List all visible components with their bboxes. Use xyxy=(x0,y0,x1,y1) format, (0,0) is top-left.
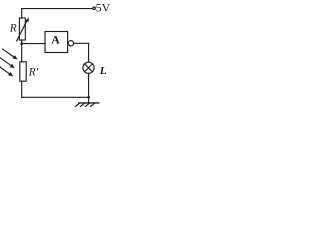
light arrow 2 xyxy=(0,58,11,66)
ground xyxy=(79,102,99,104)
node junction bottom xyxy=(87,96,90,99)
light arrow 3 xyxy=(0,67,9,74)
wire bottom rail xyxy=(22,96,89,98)
op-amp U1 box A xyxy=(45,32,68,53)
wire left vertical lower xyxy=(21,81,23,97)
svg-text:R: R xyxy=(9,22,17,34)
resistor R arrow xyxy=(17,20,28,41)
wire A output horizontal xyxy=(74,42,89,44)
svg-text:L: L xyxy=(99,65,107,77)
photoresistor R' xyxy=(20,62,26,81)
light arrow 1 xyxy=(3,49,14,57)
wire left vertical upper xyxy=(21,9,23,18)
wire lamp drop vertical xyxy=(88,43,90,62)
wire A input xyxy=(22,43,45,45)
lamp L xyxy=(83,62,94,73)
wire left vertical middle xyxy=(21,40,23,62)
node junction at A input xyxy=(20,42,23,45)
resistor R xyxy=(19,18,25,40)
svg-text:A: A xyxy=(51,32,60,46)
svg-text:5V: 5V xyxy=(96,1,111,15)
wire below lamp xyxy=(88,73,90,102)
svg-text:R′: R′ xyxy=(28,67,39,79)
terminal 5V xyxy=(93,7,96,10)
op-amp output bubble xyxy=(68,41,73,46)
wire top rail xyxy=(22,8,93,10)
